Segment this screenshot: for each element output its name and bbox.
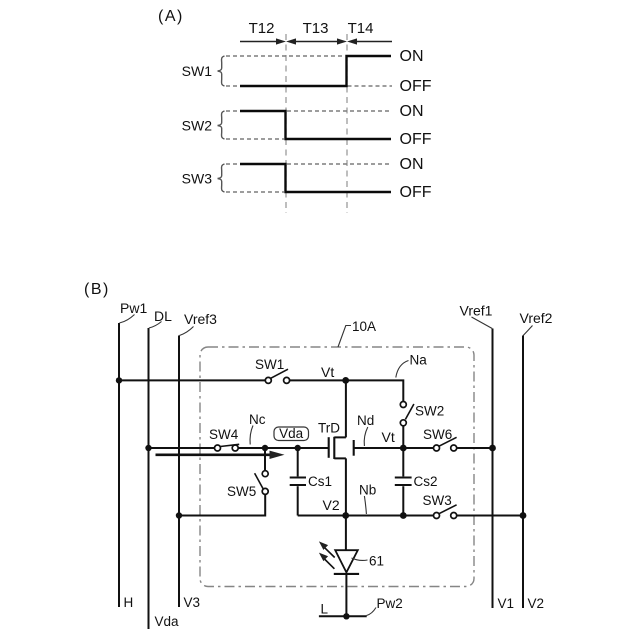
switch SW3 bbox=[434, 505, 457, 519]
label SW1 bbox=[255, 357, 284, 372]
svg-text:61: 61 bbox=[369, 554, 384, 569]
switch SW1 bbox=[265, 369, 289, 383]
svg-text:Vref2: Vref2 bbox=[520, 310, 553, 326]
SW2 waveform bbox=[240, 111, 391, 139]
reference line Vref2 bbox=[522, 336, 524, 609]
svg-text:SW1: SW1 bbox=[255, 357, 284, 372]
label SW2 (timing) bbox=[182, 118, 213, 134]
label Vref3 bbox=[179, 311, 217, 336]
label V2 (bottom right) bbox=[528, 596, 545, 611]
label Vref1 bbox=[460, 303, 493, 329]
svg-text:(B): (B) bbox=[84, 281, 110, 298]
SW3 OFF label bbox=[400, 184, 432, 201]
svg-text:SW1: SW1 bbox=[182, 63, 213, 79]
label node Nc bbox=[249, 412, 266, 445]
time label T12 bbox=[249, 20, 275, 37]
label Vda (bottom) bbox=[155, 614, 180, 629]
svg-text:SW5: SW5 bbox=[227, 484, 256, 499]
svg-text:T14: T14 bbox=[348, 20, 374, 37]
label 10A bbox=[338, 319, 376, 347]
svg-text:Pw2: Pw2 bbox=[377, 596, 403, 611]
junction node Vt bbox=[342, 377, 349, 384]
label Pw1 bbox=[119, 300, 147, 323]
label SW5 bbox=[227, 484, 256, 499]
junction on Vref1 bbox=[489, 445, 496, 452]
junction node Vt right bbox=[400, 445, 407, 452]
pixel circuit dashed box 10A bbox=[200, 347, 474, 587]
junction node V2 bbox=[342, 512, 349, 519]
svg-text:SW3: SW3 bbox=[182, 171, 213, 187]
SW3 OFF dashed level bbox=[226, 191, 284, 193]
svg-text:Vt: Vt bbox=[382, 429, 395, 445]
label SW1 (timing) bbox=[182, 63, 213, 79]
time boundary dashed line t1 bbox=[285, 34, 287, 213]
svg-text:SW4: SW4 bbox=[209, 427, 239, 442]
LED 61 bbox=[334, 550, 359, 616]
junction on Vref2 bbox=[520, 512, 527, 519]
label V3 bbox=[184, 595, 201, 610]
svg-text:Vt: Vt bbox=[321, 364, 334, 380]
time label T13 bbox=[303, 20, 329, 37]
svg-text:SW2: SW2 bbox=[182, 118, 213, 134]
SW3 waveform bbox=[240, 164, 391, 192]
label node Na bbox=[396, 353, 427, 378]
SW3 ON label bbox=[400, 156, 424, 173]
cathode wire Pw2 bbox=[319, 615, 367, 617]
SW2 OFF dashed level bbox=[226, 138, 284, 140]
dimension line T14 bbox=[347, 38, 392, 44]
dimension line T13 bbox=[286, 38, 347, 44]
svg-text:ON: ON bbox=[400, 103, 424, 120]
svg-text:V2: V2 bbox=[528, 596, 545, 611]
label Vref2 bbox=[520, 310, 553, 336]
power line Pw1 bbox=[118, 323, 120, 607]
label Vt (top node) bbox=[321, 364, 334, 380]
svg-text:OFF: OFF bbox=[400, 131, 432, 148]
capacitor Cs2 bbox=[395, 448, 412, 516]
svg-text:OFF: OFF bbox=[400, 78, 432, 95]
svg-text:V3: V3 bbox=[184, 595, 201, 610]
SW1 OFF dashed level bbox=[226, 85, 392, 87]
svg-text:DL: DL bbox=[154, 308, 172, 324]
svg-text:Cs2: Cs2 bbox=[414, 474, 438, 489]
label Pw2 bbox=[367, 596, 403, 616]
junction SW5 tap bbox=[262, 445, 268, 451]
svg-text:V1: V1 bbox=[498, 596, 515, 611]
svg-text:Cs1: Cs1 bbox=[308, 474, 332, 489]
time label T14 bbox=[348, 20, 374, 37]
svg-text:H: H bbox=[124, 595, 134, 610]
label V1 bbox=[498, 596, 515, 611]
label DL bbox=[149, 308, 172, 328]
boxed value Vda bbox=[274, 426, 309, 441]
svg-text:Pw1: Pw1 bbox=[120, 300, 147, 316]
switch SW6 bbox=[403, 437, 492, 451]
brace SW1 bbox=[218, 56, 225, 86]
dimension line T12 bbox=[240, 38, 286, 44]
svg-text:Na: Na bbox=[410, 353, 428, 368]
label 61 bbox=[352, 554, 385, 569]
svg-text:T13: T13 bbox=[303, 20, 329, 37]
svg-text:SW3: SW3 bbox=[423, 493, 452, 508]
svg-text:Vda: Vda bbox=[155, 614, 180, 629]
svg-text:SW2: SW2 bbox=[415, 404, 444, 419]
SW2 ON label bbox=[400, 103, 424, 120]
brace SW3 bbox=[218, 164, 225, 192]
SW1 ON dashed level bbox=[226, 55, 344, 57]
switch SW5 bbox=[179, 448, 268, 516]
SW1 ON label bbox=[400, 48, 424, 65]
SW2 OFF label bbox=[400, 131, 432, 148]
svg-text:(A): (A) bbox=[158, 8, 184, 25]
junction Cs1 tap bbox=[295, 445, 301, 451]
section label (A) bbox=[158, 8, 184, 25]
reference line Vref1 bbox=[492, 329, 494, 609]
switch SW2 bbox=[400, 402, 414, 446]
label TrD bbox=[318, 421, 340, 436]
switch SW4 bbox=[215, 444, 240, 451]
svg-text:ON: ON bbox=[400, 48, 424, 65]
svg-text:10A: 10A bbox=[352, 319, 376, 334]
reference line Vref3 bbox=[178, 336, 180, 608]
label Cs1 bbox=[308, 474, 332, 489]
SW3 ON dashed level bbox=[226, 163, 392, 165]
junction on Pw2 bbox=[343, 613, 349, 619]
SW2 ON dashed level bbox=[226, 110, 392, 112]
LED 61 anode wire bbox=[345, 516, 347, 550]
label L bbox=[321, 602, 329, 617]
svg-text:Nb: Nb bbox=[359, 483, 376, 498]
svg-text:OFF: OFF bbox=[400, 184, 432, 201]
data line DL bbox=[148, 328, 150, 629]
svg-text:Vref1: Vref1 bbox=[460, 303, 493, 319]
junction on Pw1 bbox=[116, 377, 122, 383]
data write arrow bbox=[156, 451, 285, 459]
svg-text:Nd: Nd bbox=[357, 413, 374, 428]
svg-text:Vref3: Vref3 bbox=[184, 311, 217, 327]
svg-text:TrD: TrD bbox=[318, 421, 340, 436]
label Cs2 bbox=[414, 474, 438, 489]
svg-text:V2: V2 bbox=[323, 497, 340, 513]
section label (B) bbox=[84, 281, 110, 298]
junction on Vref3 bbox=[176, 512, 182, 518]
LED light arrow 2 bbox=[319, 553, 335, 569]
label SW2 bbox=[415, 404, 444, 419]
junction on DL bbox=[145, 445, 151, 451]
label SW3 (timing) bbox=[182, 171, 213, 187]
label SW4 bbox=[209, 427, 239, 442]
wire: Cs1 to V2 node to SW3 (bottom wire) bbox=[298, 515, 523, 517]
label Vt (right node) bbox=[382, 429, 395, 445]
SW1 OFF label bbox=[400, 78, 432, 95]
capacitor Cs1 bbox=[290, 448, 306, 516]
label node Nb bbox=[359, 483, 376, 515]
label H bbox=[124, 595, 134, 610]
SW1 waveform bbox=[240, 56, 391, 86]
wire: DL through SW4 to TrD gate bbox=[149, 447, 329, 449]
label node Nd bbox=[357, 413, 374, 446]
LED light arrow 1 bbox=[319, 541, 335, 557]
transistor TrD bbox=[329, 380, 404, 515]
svg-text:T12: T12 bbox=[249, 20, 275, 37]
label SW6 bbox=[423, 427, 452, 442]
junction Cs2 bottom bbox=[400, 512, 407, 519]
svg-text:Vda: Vda bbox=[279, 426, 304, 441]
time boundary dashed line t2 bbox=[346, 34, 348, 213]
wire: Pw1 to SW1 to node Na (top wire) bbox=[119, 380, 403, 401]
label V2 (node) bbox=[323, 497, 340, 513]
svg-text:Nc: Nc bbox=[249, 412, 266, 427]
svg-text:ON: ON bbox=[400, 156, 424, 173]
label SW3 bbox=[423, 493, 452, 508]
svg-text:L: L bbox=[321, 602, 329, 617]
brace SW2 bbox=[218, 111, 225, 139]
svg-text:SW6: SW6 bbox=[423, 427, 452, 442]
